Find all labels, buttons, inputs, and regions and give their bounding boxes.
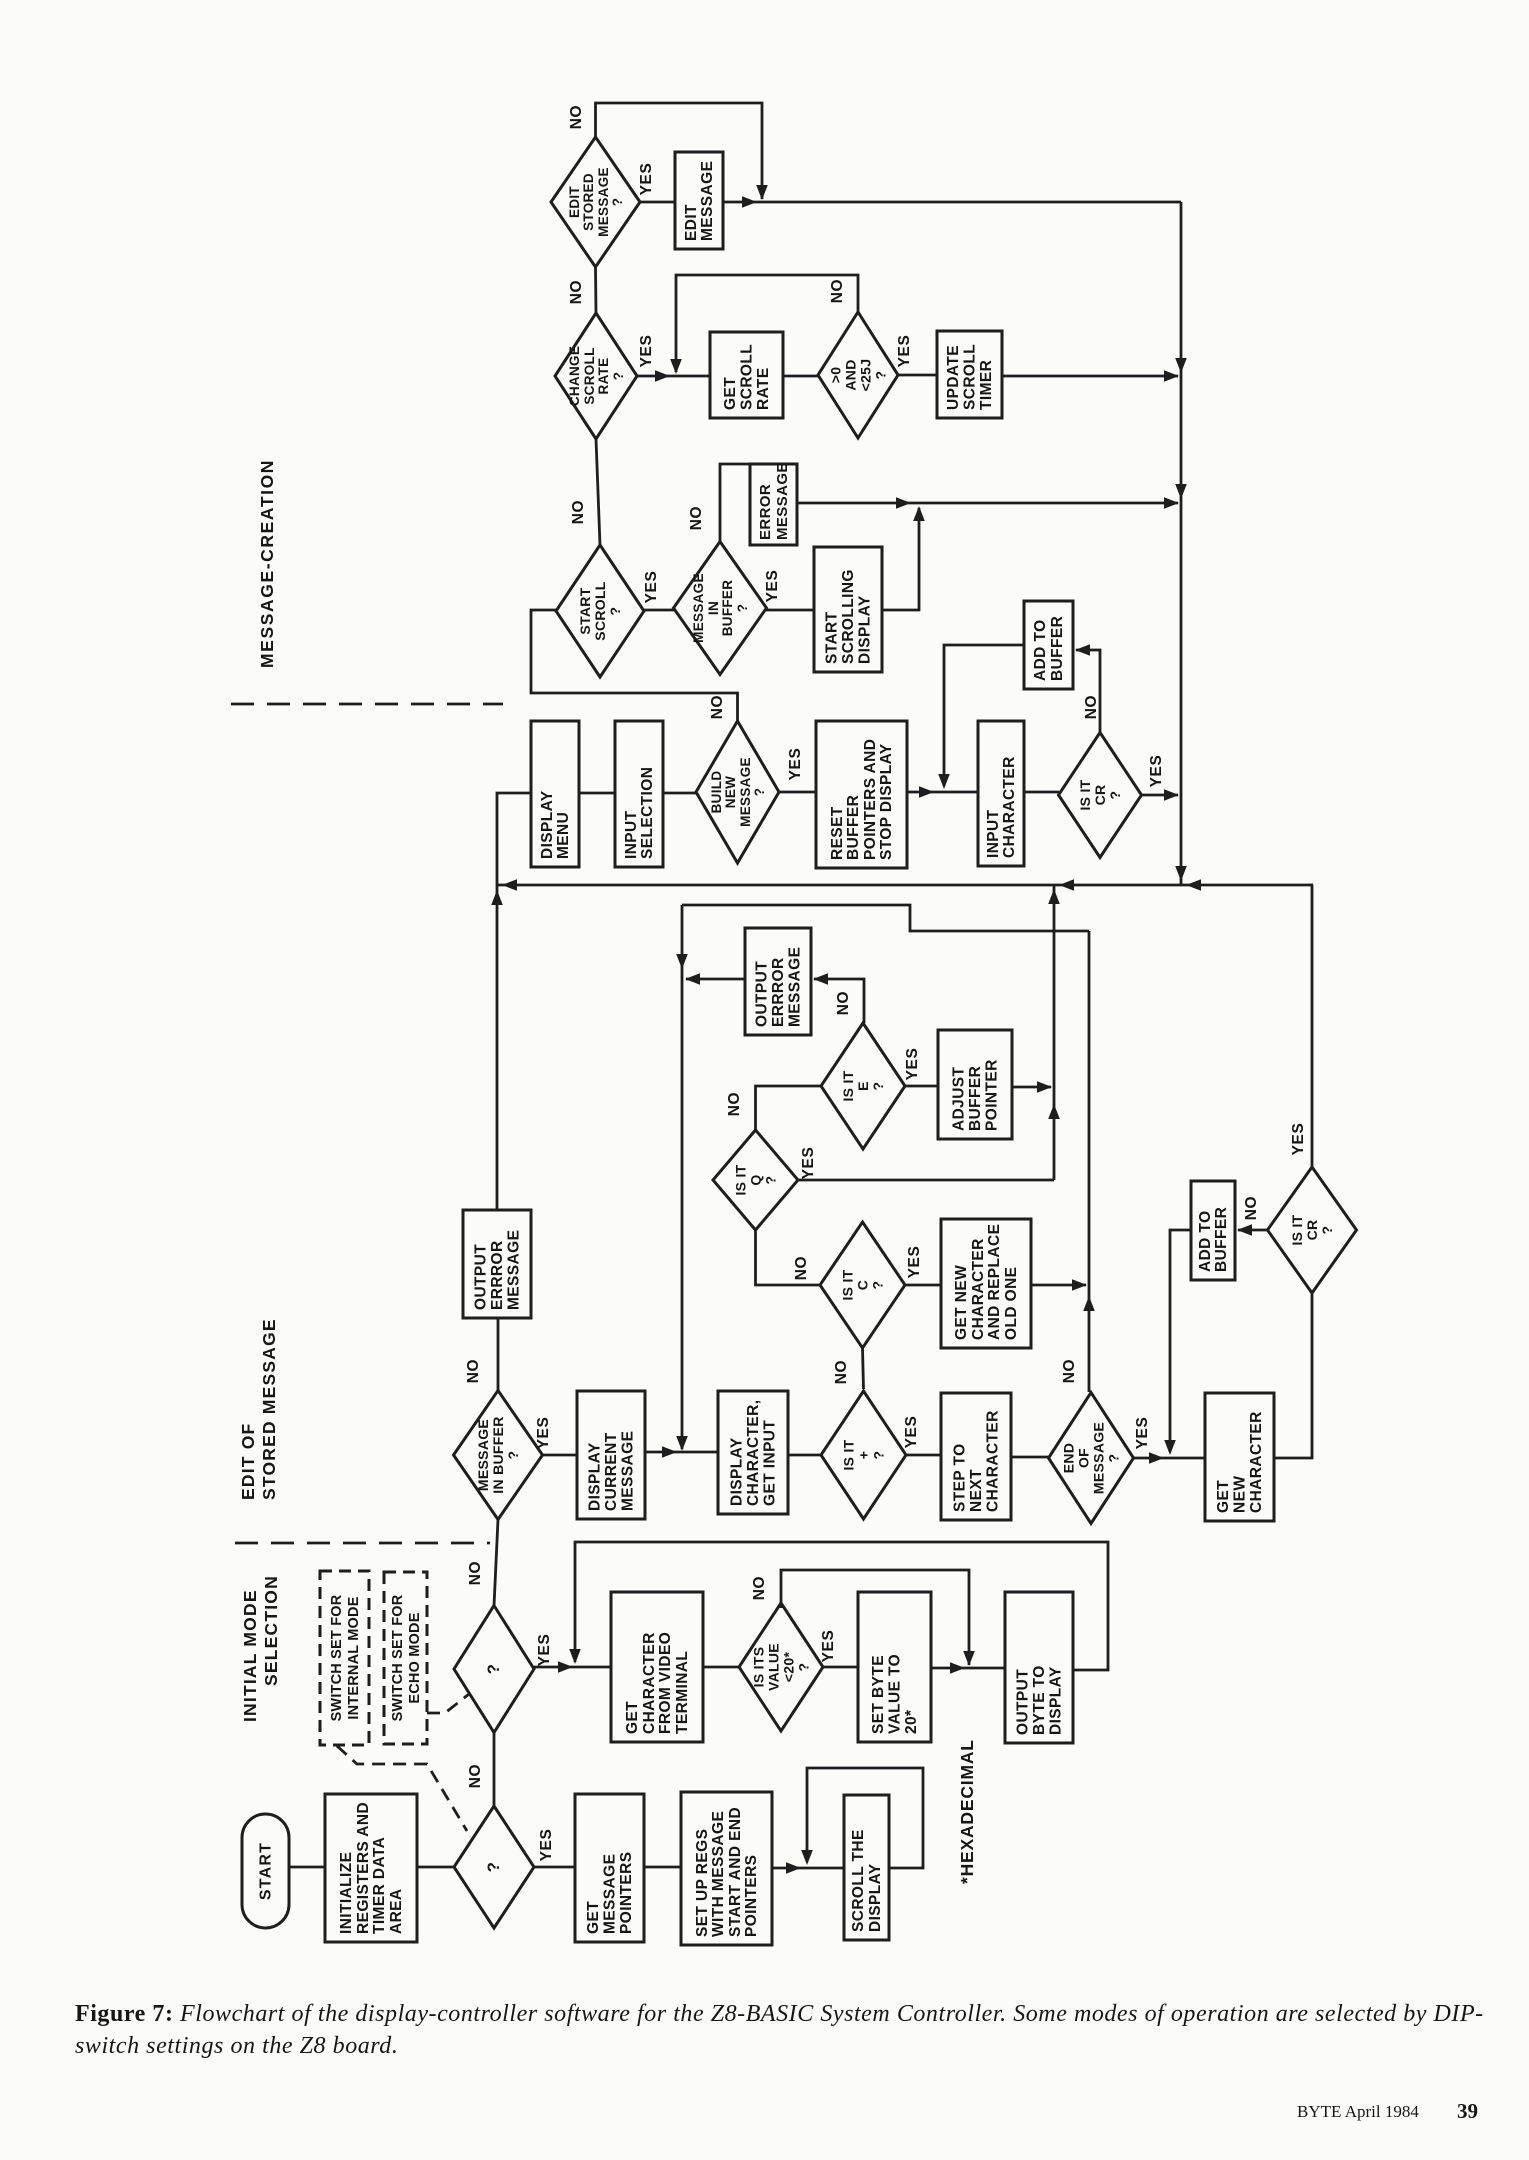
svg-text:STORED MESSAGE: STORED MESSAGE [259, 1318, 279, 1500]
wire ADD TO BUFFER loop back to INPUT CHARACTER [944, 645, 1024, 786]
svg-text:INITIAL MODE: INITIAL MODE [240, 1589, 260, 1722]
terminal START [242, 1814, 289, 1928]
svg-text:NO: NO [726, 1092, 743, 1116]
svg-text:MESSAGE: MESSAGE [602, 1854, 619, 1934]
svg-text:SCROLL THE: SCROLL THE [850, 1829, 867, 1932]
svg-text:?: ? [873, 371, 889, 380]
svg-text:AND: AND [843, 359, 859, 390]
svg-text:BUILD: BUILD [709, 771, 724, 814]
svg-text:YES: YES [904, 1048, 921, 1081]
process OUTPUT ERRROR MESSAGE (left) [463, 1210, 531, 1318]
process INPUT CHARACTER [978, 721, 1024, 866]
svg-text:STOP DISPLAY: STOP DISPLAY [878, 743, 895, 860]
svg-text:INTERNAL MODE: INTERNAL MODE [346, 1596, 362, 1719]
svg-text:START: START [577, 587, 593, 634]
svg-text:GET INPUT: GET INPUT [762, 1420, 779, 1506]
svg-text:OUTPUT: OUTPUT [1015, 1669, 1032, 1735]
svg-text:YES: YES [820, 1630, 837, 1663]
wire START SCROLLING DISPLAY output up [882, 508, 919, 610]
svg-text:POINTERS: POINTERS [618, 1852, 635, 1934]
wire ADD TO BUFFER(2) down to YES line [1170, 1230, 1191, 1452]
svg-text:NO: NO [570, 500, 587, 524]
decision: END OF MESSAGE ? [1049, 1393, 1134, 1524]
svg-text:YES: YES [896, 335, 913, 368]
svg-text:BUFFER: BUFFER [1213, 1207, 1230, 1272]
process GET NEW CHARACTER [1205, 1393, 1274, 1521]
svg-text:INPUT: INPUT [623, 810, 640, 859]
svg-text:RATE: RATE [755, 367, 772, 410]
svg-text:ERROR: ERROR [757, 484, 774, 540]
wire YES into EDIT MESSAGE [640, 201, 675, 204]
process ADD TO BUFFER (edit loop) [1191, 1181, 1235, 1280]
svg-text:GET NEW: GET NEW [953, 1265, 970, 1340]
svg-text:BUFFER: BUFFER [720, 580, 735, 637]
svg-text:DISPLAY: DISPLAY [1048, 1666, 1065, 1735]
svg-text:EDIT OF: EDIT OF [238, 1423, 258, 1500]
svg-text:CHARACTER: CHARACTER [985, 1410, 1002, 1512]
svg-text:ADD TO: ADD TO [1197, 1210, 1214, 1272]
wire YES into START SCROLLING DISPLAY [766, 609, 814, 612]
svg-text:CHARACTER: CHARACTER [1248, 1411, 1265, 1513]
svg-text:POINTERS AND: POINTERS AND [862, 739, 879, 860]
wire INITIALIZE to mode diamond 1 [417, 1866, 454, 1869]
decision: >0 AND <25J ? [818, 312, 898, 438]
svg-text:REGISTERS AND: REGISTERS AND [355, 1802, 372, 1934]
svg-text:NO: NO [568, 105, 585, 129]
wire NO build-new-message to START SCROLL input [531, 610, 738, 721]
wire YES into UPDATE SCROLL TIMER [898, 374, 937, 377]
wire END YES to GET NEW CHARACTER [1134, 1457, 1206, 1460]
svg-text:?: ? [607, 607, 623, 616]
svg-text:MESSAGE-CREATION: MESSAGE-CREATION [257, 459, 277, 668]
wire START to INITIALIZE [289, 1866, 325, 1869]
svg-text:?: ? [505, 1451, 521, 1460]
wire YES to SET BYTE VALUE [823, 1666, 858, 1669]
cr2 yes vertical [1312, 885, 1313, 1167]
wire YES start-scroll to message-in-buffer [644, 609, 674, 612]
svg-text:RATE: RATE [596, 358, 611, 395]
wire GET MESSAGE POINTERS to SET UP REGS [644, 1866, 681, 1869]
svg-text:CHARACTER: CHARACTER [641, 1632, 658, 1734]
process STEP TO NEXT CHARACTER [941, 1393, 1011, 1520]
svg-text:AREA: AREA [388, 1888, 405, 1934]
svg-text:YES: YES [1134, 1417, 1151, 1450]
svg-text:IS IT: IS IT [733, 1164, 749, 1195]
process ERROR MESSAGE [750, 462, 797, 545]
svg-text:START: START [824, 611, 841, 664]
process INITIALIZE REGISTERS AND TIMER DATA AREA [325, 1794, 417, 1942]
svg-text:MESSAGE: MESSAGE [738, 757, 753, 827]
process INPUT SELECTION [615, 721, 663, 867]
svg-text:STORED: STORED [581, 173, 596, 231]
svg-text:NO: NO [793, 1256, 810, 1280]
svg-text:END: END [1061, 1443, 1077, 1473]
svg-text:DISPLAY: DISPLAY [857, 595, 874, 664]
svg-text:?: ? [484, 1862, 503, 1873]
svg-text:?: ? [735, 604, 750, 613]
wire OUTPUT ERRROR (mid) output left [686, 978, 745, 981]
svg-text:IN BUFFER: IN BUFFER [490, 1416, 506, 1493]
svg-text:GET: GET [1215, 1480, 1232, 1513]
svg-text:CHARACTER,: CHARACTER, [745, 1400, 762, 1506]
wire SET UP REGS to SCROLL THE DISPLAY [772, 1867, 844, 1870]
wire UPDATE SCROLL TIMER to right rail [1002, 375, 1178, 378]
svg-text:?: ? [763, 1176, 779, 1185]
wire GET NEW CHARACTER to CR2 [1274, 1293, 1312, 1458]
wire GET NEW CH output to END-NO vertical [1031, 1284, 1086, 1287]
svg-text:GET: GET [722, 377, 739, 410]
process GET CHARACTER FROM VIDEO TERMINAL [611, 1592, 703, 1742]
wire YES into RESET BUFFER POINTERS [779, 791, 816, 794]
svg-text:E: E [855, 1081, 871, 1091]
wire YES change-scroll to GET SCROLL RATE [637, 375, 710, 378]
svg-text:YES: YES [538, 1829, 555, 1862]
wire C NO up to Q [756, 1230, 821, 1285]
wire SCROLL THE DISPLAY self loop [807, 1768, 923, 1868]
dashed separator 2 [235, 1542, 490, 1545]
svg-text:YES: YES [800, 1147, 817, 1180]
wire Q YES to riser [798, 1179, 1054, 1182]
process DISPLAY CHARACTER, GET INPUT [718, 1391, 788, 1514]
process START SCROLLING DISPLAY [814, 547, 882, 672]
svg-text:MESSAGE: MESSAGE [1091, 1422, 1107, 1494]
wire DISPLAY CHARACTER to IS IT + [788, 1454, 821, 1457]
right rail vertical [1180, 202, 1183, 885]
process OUTPUT BYTE TO DISPLAY [1005, 1592, 1073, 1743]
svg-text:NO: NO [1243, 1196, 1260, 1220]
svg-text:IS IT: IS IT [840, 1269, 856, 1300]
svg-text:YES: YES [906, 1246, 923, 1279]
svg-text:SCROLL: SCROLL [592, 581, 608, 640]
process SET BYTE VALUE TO 20* [858, 1592, 931, 1742]
svg-text:SET UP REGS: SET UP REGS [694, 1829, 711, 1937]
edit loop top horizontal [682, 905, 1089, 931]
svg-text:WITH MESSAGE: WITH MESSAGE [710, 1811, 727, 1937]
svg-text:?: ? [796, 1663, 812, 1672]
svg-text:NO: NO [467, 1764, 484, 1788]
wire YES to DISPLAY CURRENT MESSAGE [543, 1454, 578, 1457]
wire YES mode2 to GET CHARACTER [534, 1666, 611, 1669]
process GET SCROLL RATE [710, 332, 783, 418]
svg-text:MESSAGE: MESSAGE [787, 947, 804, 1027]
wire CR2 NO to ADD TO BUFFER(2) [1238, 1229, 1268, 1232]
svg-text:START: START [258, 1842, 275, 1900]
decision: IS ITS VALUE <20* ? [739, 1603, 823, 1731]
svg-text:BUFFER: BUFFER [845, 795, 862, 860]
end-no vertical [1088, 931, 1091, 1392]
decision: IS IT C ? [820, 1222, 905, 1348]
svg-text:BUFFER: BUFFER [1049, 616, 1066, 681]
svg-text:Figure 7: Flowchart of the dis: Figure 7: Flowchart of the display-contr… [75, 2001, 1484, 2027]
svg-text:VALUE: VALUE [766, 1643, 782, 1691]
decision: BUILD NEW MESSAGE ? [696, 721, 779, 863]
svg-text:MESSAGE: MESSAGE [596, 167, 611, 237]
svg-text:switch settings on the Z8 boar: switch settings on the Z8 board. [75, 2033, 398, 2059]
svg-text:ADJUST: ADJUST [951, 1066, 968, 1131]
process ADJUST BUFFER POINTER [938, 1030, 1012, 1139]
svg-text:OUTPUT: OUTPUT [473, 1244, 490, 1310]
svg-text:UPDATE: UPDATE [945, 345, 962, 410]
wire NO to ERROR MESSAGE [720, 464, 750, 542]
decision: echo mode ? (diamond 2) [454, 1606, 534, 1733]
svg-text:INPUT: INPUT [985, 809, 1002, 858]
svg-text:DISPLAY: DISPLAY [587, 1442, 604, 1511]
svg-text:SWITCH SET FOR: SWITCH SET FOR [390, 1594, 406, 1721]
svg-text:TIMER DATA: TIMER DATA [371, 1837, 388, 1934]
svg-text:NO: NO [568, 280, 585, 304]
svg-text:IS IT: IS IT [1289, 1214, 1305, 1245]
chain wire 3 [494, 1520, 498, 1607]
svg-text:VALUE TO: VALUE TO [887, 1654, 904, 1734]
svg-text:CR: CR [1092, 785, 1108, 806]
svg-text:YES: YES [638, 335, 655, 368]
svg-text:YES: YES [787, 748, 804, 781]
process RESET BUFFER POINTERS AND STOP DISPLAY [816, 721, 907, 868]
svg-text:NO: NO [829, 279, 846, 303]
svg-text:NO: NO [751, 1576, 768, 1600]
svg-text:SCROLLING: SCROLLING [840, 569, 857, 664]
process OUTPUT ERRROR MESSAGE (mid) [745, 928, 811, 1035]
svg-text:<20*: <20* [781, 1652, 797, 1683]
wire OUTPUT BYTE feedback to GET CHARACTER [575, 1542, 1108, 1670]
svg-text:CR: CR [1304, 1220, 1320, 1241]
svg-text:NO: NO [1061, 1359, 1078, 1383]
wire Q NO up to E [756, 1086, 822, 1130]
wire NO bypass of SET BYTE [781, 1570, 969, 1665]
svg-text:SWITCH SET FOR: SWITCH SET FOR [329, 1594, 345, 1721]
svg-text:NEW: NEW [1232, 1476, 1249, 1513]
svg-text:IS ITS: IS ITS [751, 1647, 767, 1688]
svg-text:GET: GET [624, 1701, 641, 1734]
chain wire 2 [596, 439, 600, 545]
svg-text:?: ? [611, 372, 626, 381]
decision: EDIT STORED MESSAGE ? [551, 137, 640, 267]
process EDIT MESSAGE [675, 152, 723, 249]
svg-text:YES: YES [535, 1417, 552, 1450]
svg-text:TERMINAL: TERMINAL [674, 1651, 691, 1734]
svg-text:BYTE April 1984: BYTE April 1984 [1297, 2102, 1419, 2121]
wire GET CHARACTER to value check [703, 1666, 739, 1669]
svg-text:EDIT: EDIT [567, 186, 582, 218]
svg-text:SCROLL: SCROLL [962, 344, 979, 410]
svg-text:IN: IN [706, 601, 721, 615]
svg-text:SELECTION: SELECTION [639, 767, 656, 859]
svg-text:?: ? [484, 1664, 503, 1675]
svg-text:YES: YES [764, 570, 781, 603]
svg-text:CHANGE: CHANGE [567, 346, 582, 406]
wire EDIT MESSAGE output to right rail [723, 201, 1181, 204]
svg-text:?: ? [870, 1082, 886, 1091]
wire C YES to GET NEW CHARACTER AND REPLACE [905, 1284, 941, 1287]
wire IS IT E NO [814, 979, 864, 1023]
wire IS IT + NO up to C [863, 1348, 864, 1389]
decision: CHANGE SCROLL RATE ? [555, 313, 637, 439]
decision: IS IT CR ? (menu) [1059, 733, 1142, 858]
svg-text:39: 39 [1457, 2099, 1478, 2123]
process DISPLAY MENU [531, 721, 579, 867]
svg-text:ECHO MODE: ECHO MODE [407, 1612, 423, 1703]
svg-text:?: ? [1319, 1226, 1335, 1235]
svg-text:SET BYTE: SET BYTE [870, 1655, 887, 1734]
process UPDATE SCROLL TIMER [937, 331, 1002, 418]
svg-text:YES: YES [536, 1634, 553, 1667]
svg-text:POINTERS: POINTERS [743, 1855, 760, 1937]
wire YES to ADJUST BUFFER POINTER [905, 1085, 938, 1088]
svg-text:YES: YES [643, 571, 660, 604]
svg-text:STEP TO: STEP TO [952, 1443, 969, 1512]
leader echo [427, 1694, 469, 1713]
svg-text:MESSAGE: MESSAGE [691, 573, 706, 643]
process GET MESSAGE POINTERS [575, 1794, 644, 1942]
svg-text:OF: OF [1076, 1448, 1092, 1468]
wire NO up to OUTPUT ERRROR (left) [497, 1318, 500, 1391]
return rail mid [496, 885, 499, 1210]
svg-text:20*: 20* [903, 1709, 920, 1734]
svg-text:POINTER: POINTER [984, 1059, 1001, 1131]
svg-text:CHARACTER: CHARACTER [1001, 756, 1018, 858]
svg-text:>0: >0 [828, 367, 844, 384]
svg-text:MENU: MENU [555, 812, 572, 859]
svg-text:TIMER: TIMER [978, 360, 995, 410]
svg-text:NO: NO [688, 506, 705, 530]
svg-text:IS IT: IS IT [840, 1070, 856, 1101]
wire SET BYTE to OUTPUT BYTE [931, 1667, 1005, 1670]
svg-text:<25J: <25J [858, 359, 874, 392]
svg-text:MESSAGE: MESSAGE [506, 1230, 523, 1310]
comment SWITCH SET FOR ECHO MODE [384, 1572, 427, 1744]
dashed separator 1 [231, 703, 503, 706]
svg-text:MESSAGE: MESSAGE [475, 1419, 491, 1491]
svg-text:Q: Q [748, 1174, 764, 1185]
wire RESET to INPUT CHARACTER [907, 791, 978, 794]
wire ADJUST output to riser [1012, 1086, 1051, 1089]
process DISPLAY CURRENT MESSAGE [577, 1391, 645, 1519]
wire + YES to STEP TO NEXT CHARACTER [906, 1454, 941, 1457]
decision: IS IT CR ? (edit) [1268, 1167, 1357, 1293]
svg-text:NEW: NEW [723, 776, 738, 808]
decision: START SCROLL ? [556, 545, 644, 677]
svg-text:OUTPUT: OUTPUT [754, 961, 771, 1027]
svg-text:MESSAGE: MESSAGE [620, 1431, 637, 1511]
svg-text:?: ? [1107, 791, 1123, 800]
process SCROLL THE DISPLAY [844, 1795, 889, 1940]
svg-text:CHARACTER: CHARACTER [970, 1238, 987, 1340]
svg-text:NO: NO [467, 1561, 484, 1585]
svg-text:DISPLAY: DISPLAY [867, 1863, 884, 1932]
svg-text:BYTE TO: BYTE TO [1031, 1665, 1048, 1735]
chain wire [594, 267, 597, 313]
svg-text:OLD ONE: OLD ONE [1003, 1267, 1020, 1340]
svg-text:?: ? [1106, 1454, 1122, 1463]
wire INPUT SELECTION to BUILD NEW MESSAGE [663, 792, 696, 795]
return rail top [497, 793, 531, 885]
svg-text:CURRENT: CURRENT [603, 1432, 620, 1511]
process SET UP REGS WITH MESSAGE START AND END POINTERS [681, 1792, 772, 1945]
svg-text:NO: NO [465, 1359, 482, 1383]
svg-text:IS IT: IS IT [1077, 779, 1093, 810]
wire YES to right rail [1141, 794, 1178, 797]
svg-text:?: ? [871, 1451, 887, 1460]
comment SWITCH SET FOR INTERNAL MODE [320, 1571, 369, 1745]
svg-text:ERRROR: ERRROR [489, 1240, 506, 1310]
wire ERROR MESSAGE output to right rail [797, 502, 1178, 505]
svg-text:+: + [856, 1451, 872, 1459]
svg-text:NO: NO [833, 1360, 850, 1384]
decision: MESSAGE IN BUFFER ? (creation) [674, 542, 767, 675]
wire NO to ADD TO BUFFER [1076, 650, 1100, 733]
wire GET SCROLL RATE to range check [783, 375, 818, 378]
process GET NEW CHARACTER AND REPLACE OLD ONE [941, 1219, 1031, 1348]
svg-text:*HEXADECIMAL: *HEXADECIMAL [957, 1739, 977, 1884]
process ADD TO BUFFER (menu loop) [1024, 601, 1073, 689]
svg-text:?: ? [610, 198, 625, 207]
svg-text:FROM VIDEO: FROM VIDEO [657, 1632, 674, 1734]
svg-text:SELECTION: SELECTION [261, 1575, 281, 1686]
svg-text:?: ? [752, 788, 767, 797]
decision: MESSAGE IN BUFFER ? (edit) [454, 1391, 543, 1520]
svg-text:SCROLL: SCROLL [582, 347, 597, 404]
edit loop left vertical [681, 905, 684, 1449]
svg-text:NO: NO [709, 695, 726, 719]
svg-text:DISPLAY: DISPLAY [539, 790, 556, 859]
riser vertical [1053, 885, 1056, 1180]
svg-text:ADD TO: ADD TO [1032, 619, 1049, 681]
svg-text:SCROLL: SCROLL [739, 344, 756, 410]
svg-text:?: ? [870, 1281, 886, 1290]
svg-text:MESSAGE: MESSAGE [774, 462, 791, 540]
leader internal [337, 1746, 467, 1831]
wire DISPLAY CURRENT to DISPLAY CHARACTER [645, 1451, 718, 1454]
svg-text:RESET: RESET [829, 806, 846, 860]
svg-text:NO: NO [835, 991, 852, 1015]
svg-text:MESSAGE: MESSAGE [699, 161, 716, 241]
decision: IS IT E ? [821, 1023, 905, 1149]
wire STEP TO to END OF MESSAGE [1011, 1456, 1049, 1459]
svg-text:GET: GET [585, 1901, 602, 1934]
svg-text:DISPLAY: DISPLAY [729, 1437, 746, 1506]
svg-text:NO: NO [1083, 695, 1100, 719]
wire YES mode1 to GET MESSAGE POINTERS [534, 1866, 575, 1869]
svg-text:EDIT: EDIT [683, 204, 700, 241]
svg-text:ERRROR: ERRROR [770, 957, 787, 1027]
svg-text:YES: YES [1148, 755, 1165, 788]
svg-text:BUFFER: BUFFER [967, 1066, 984, 1131]
wire NO bypass of EDIT MESSAGE [596, 103, 763, 199]
wire INPUT CHARACTER to IS IT CR [1024, 791, 1059, 794]
svg-text:C: C [855, 1280, 871, 1290]
chain wire 4 [493, 1733, 496, 1807]
svg-text:YES: YES [1290, 1123, 1307, 1156]
svg-text:INITIALIZE: INITIALIZE [338, 1852, 355, 1934]
svg-text:START AND END: START AND END [727, 1807, 744, 1937]
svg-text:YES: YES [903, 1416, 920, 1449]
wire DISPLAY MENU to INPUT SELECTION [579, 792, 615, 795]
svg-text:IS IT: IS IT [841, 1439, 857, 1470]
svg-text:AND REPLACE: AND REPLACE [986, 1224, 1003, 1340]
decision: IS IT + ? [821, 1391, 906, 1519]
wire scroll-rate retry loop [676, 275, 858, 372]
return line horizontal [497, 884, 1313, 887]
svg-text:NEXT: NEXT [968, 1469, 985, 1512]
svg-text:YES: YES [638, 163, 655, 196]
decision: internal mode ? (diamond 1) [454, 1806, 534, 1928]
decision: IS IT Q ? [713, 1130, 798, 1230]
